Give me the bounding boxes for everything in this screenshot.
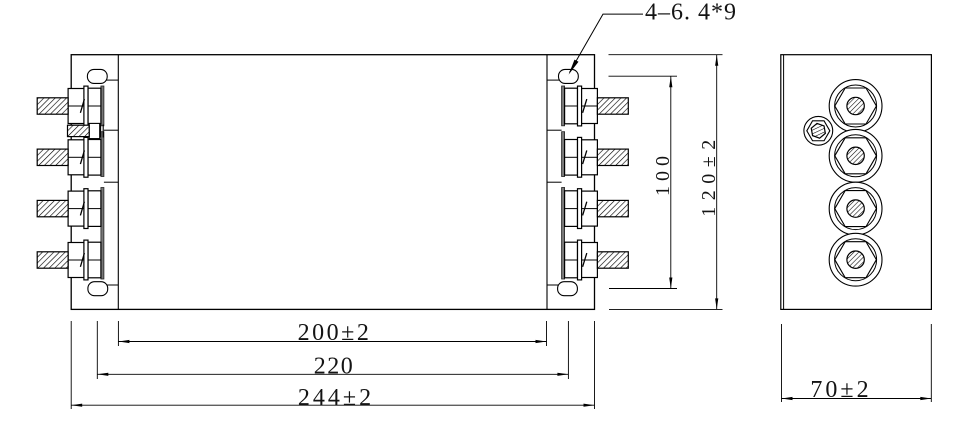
svg-text:200±2: 200±2 (298, 320, 372, 346)
svg-text:4–6. 4*9: 4–6. 4*9 (645, 0, 737, 26)
svg-text:220: 220 (314, 354, 355, 380)
svg-text:244±2: 244±2 (298, 385, 374, 411)
svg-text:120±2: 120±2 (698, 133, 720, 216)
svg-text:100: 100 (652, 151, 674, 196)
svg-text:70±2: 70±2 (810, 377, 871, 403)
